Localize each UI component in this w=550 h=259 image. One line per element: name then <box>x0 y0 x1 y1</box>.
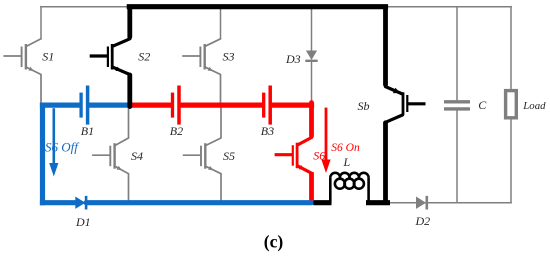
wire: middle rail blue (battery B1 to S2/S4 junction) <box>88 102 131 107</box>
wire: S3 leg vertical (top rail to S3 collector) <box>220 7 222 40</box>
wire: bottom rail thick black (S6 leg to inductor) <box>313 200 331 205</box>
svg-text:S2: S2 <box>138 50 150 64</box>
wire: C leg vertical (top rail to capacitor) <box>456 7 458 101</box>
wire: Load leg vertical (top rail corner to load) <box>510 6 512 91</box>
svg-text:Load: Load <box>522 100 546 112</box>
svg-text:L: L <box>343 155 351 169</box>
battery B2 <box>171 93 174 118</box>
svg-text:D2: D2 <box>415 214 431 228</box>
load resistor <box>506 91 517 118</box>
wire: bottom rail blue (diode D1 to S6 leg) <box>86 200 312 205</box>
transistor S4 <box>92 154 110 156</box>
wire: bottom rail gray segment (Sb leg to Load corner) <box>388 202 512 204</box>
diode D2 <box>416 197 426 209</box>
svg-text:S1: S1 <box>42 50 54 64</box>
svg-text:S5: S5 <box>223 149 235 163</box>
transistor S5 <box>183 154 201 156</box>
transistor Sb <box>407 102 425 105</box>
annotation arrow: S6 Off loop current (blue) <box>52 108 55 163</box>
svg-text:S4: S4 <box>131 149 143 163</box>
wire: top rail gray segment (Sb corner to Load corner) <box>386 6 512 8</box>
wire: D3 leg vertical (diode D3 to red rail corner) <box>311 62 313 106</box>
capacitor C <box>444 100 470 103</box>
svg-text:S6 On: S6 On <box>331 142 360 154</box>
wire: Load leg vertical (load to bottom rail corner) <box>510 117 512 203</box>
svg-text:B1: B1 <box>81 124 94 138</box>
svg-text:C: C <box>478 98 487 112</box>
svg-text:D1: D1 <box>75 215 91 229</box>
wire: red vertical (red rail corner down to S6 collector) <box>309 103 314 136</box>
wire: bottom rail blue (left corner to diode D1) <box>40 200 76 205</box>
wire: middle rail red (battery B3 to S6 corner) <box>270 102 314 107</box>
transistor S2 <box>90 54 108 57</box>
wire: left blue vertical (middle rail to bottom rail) <box>40 103 45 206</box>
svg-text:(c): (c) <box>264 232 284 252</box>
wire: middle rail red (battery B2 to battery B3) <box>179 102 264 107</box>
wire: S1 leg vertical (top rail to S1 collector) <box>40 6 42 40</box>
wire: middle rail blue (left corner to battery B1) <box>40 102 81 107</box>
svg-text:B2: B2 <box>170 124 183 138</box>
battery B3 <box>262 93 265 118</box>
inductor L <box>329 178 332 203</box>
svg-text:Sb: Sb <box>358 99 370 113</box>
wire: top rail thick black (S2 leg to Sb leg corner) <box>127 4 388 9</box>
svg-text:S6: S6 <box>313 148 325 162</box>
svg-text:B3: B3 <box>261 124 274 138</box>
wire: middle rail red (S2/S4 junction to battery B2) <box>129 102 172 107</box>
svg-text:S6 Off: S6 Off <box>45 139 80 154</box>
transistor S6 <box>275 153 293 156</box>
wire: top rail gray segment (S1 leg to S2 leg) <box>40 6 129 8</box>
svg-text:S3: S3 <box>223 50 235 64</box>
wire: bottom rail thick black (inductor to Sb leg) <box>366 200 390 205</box>
wire: C leg vertical (capacitor to bottom rail) <box>456 110 458 202</box>
transistor S3 <box>182 55 200 57</box>
annotation arrow: S6 On loop current (red) <box>325 108 328 160</box>
transistor S1 <box>3 55 21 57</box>
diode D3 <box>306 51 317 61</box>
battery B1 <box>79 93 82 118</box>
svg-text:D3: D3 <box>285 52 301 66</box>
diode D1 <box>75 197 85 209</box>
wire: D3 leg vertical (top rail to diode D3) <box>311 7 313 52</box>
